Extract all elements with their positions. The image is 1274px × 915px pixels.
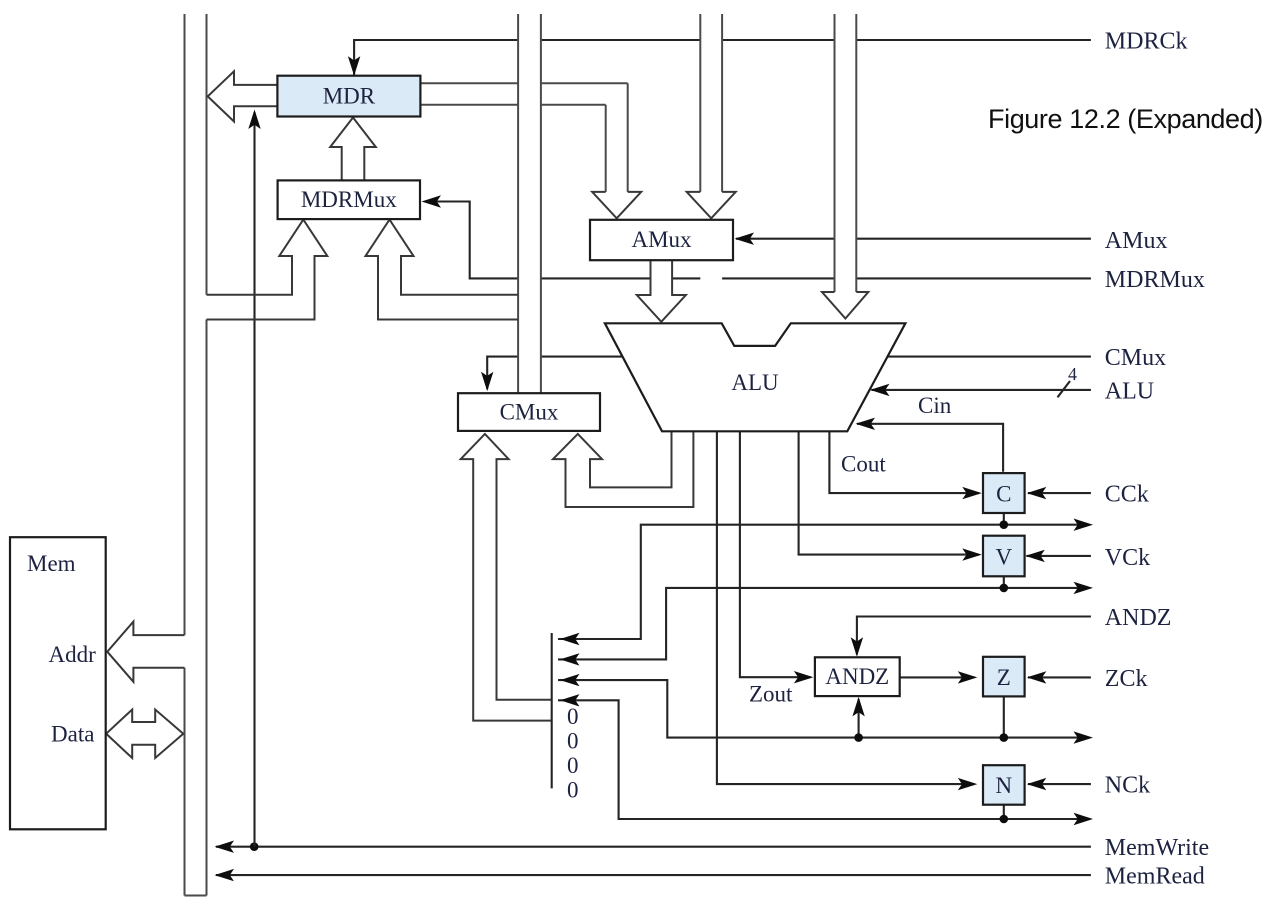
junction dot C output <box>1000 520 1009 529</box>
svg-text:NCk: NCk <box>1105 773 1150 799</box>
arrowhead Z feedback into zero bar <box>560 674 580 686</box>
wide arrow ALU output to CMux right input <box>553 431 693 507</box>
wire ANDZ bottom input from Z feedback <box>858 699 860 738</box>
svg-text:Cout: Cout <box>841 452 886 477</box>
wire Cin from C flag to ALU <box>857 424 1003 472</box>
svg-text:ANDZ: ANDZ <box>1105 605 1172 631</box>
wide double arrow Mem Data to system bus <box>106 710 183 759</box>
bus MDR output to AMux left input <box>420 83 627 192</box>
bus B-bus down to CMux (vertical pair) <box>518 14 541 393</box>
svg-text:MemRead: MemRead <box>1105 864 1205 890</box>
svg-text:V: V <box>995 544 1012 569</box>
junction dot ANDZ bottom <box>854 733 863 742</box>
bus right bus down to ALU right input (vertical pair) <box>835 14 857 292</box>
arrowhead VCk into V <box>1025 550 1045 562</box>
svg-text:ALU: ALU <box>731 370 779 395</box>
arrowhead C feedback into zero bar <box>560 633 580 645</box>
arrowhead ZCk into Z <box>1027 671 1047 683</box>
svg-text:Figure 12.2 (Expanded): Figure 12.2 (Expanded) <box>988 104 1263 134</box>
svg-text:MemWrite: MemWrite <box>1105 835 1209 861</box>
wide arrow zero-bar bus to CMux left input <box>461 434 552 721</box>
gate ANDZ <box>815 657 900 696</box>
wide arrow MDRMux to MDR <box>330 118 376 181</box>
wire C flag output feedback <box>558 513 1088 639</box>
wire ALU control line with 4-bit slash <box>872 381 1091 397</box>
wide arrow AMux output into ALU <box>637 260 686 322</box>
wire Cout from ALU to C flag <box>829 431 979 493</box>
svg-text:MDRMux: MDRMux <box>1105 267 1205 293</box>
arrowhead MemWrite into bus <box>215 841 235 853</box>
svg-text:N: N <box>995 773 1012 798</box>
svg-text:Cin: Cin <box>918 393 952 418</box>
svg-text:0: 0 <box>567 778 579 803</box>
svg-text:Zout: Zout <box>749 682 793 707</box>
arrowhead V feedback to right <box>1074 582 1094 594</box>
flag V <box>983 536 1025 577</box>
arrowhead MemRead into bus <box>215 869 235 881</box>
wire Zout from ALU to ANDZ <box>740 431 811 677</box>
wire MDRCk control line <box>354 40 1091 77</box>
flag N <box>983 765 1025 805</box>
arrowhead N feedback into zero bar <box>560 694 580 706</box>
arrowhead Cin into ALU <box>856 418 876 430</box>
junction dot Z output <box>1000 733 1009 742</box>
bus left system bus (vertical pair) <box>185 14 207 896</box>
svg-text:0: 0 <box>567 729 579 754</box>
svg-text:AMux: AMux <box>631 227 692 252</box>
junction dot V output <box>1000 584 1009 593</box>
svg-text:AMux: AMux <box>1105 228 1168 254</box>
svg-text:MDR: MDR <box>323 83 376 108</box>
wire N input from ALU <box>717 431 975 784</box>
bus A-bus down to AMux right input (vertical pair) <box>700 14 722 192</box>
wide arrow B-bus to MDRMux right input <box>366 220 519 320</box>
arrowhead V feedback into zero bar <box>560 653 580 665</box>
wire MemWrite branch up to memory bus arrow <box>253 112 255 847</box>
wire AMux control line <box>736 238 1091 240</box>
svg-text:Data: Data <box>51 722 94 747</box>
wire V flag output feedback <box>558 576 1088 659</box>
arrowhead into ANDZ bottom <box>852 697 864 717</box>
wire V input from ALU <box>799 431 979 554</box>
arrowhead memory branch pointing up <box>248 110 260 130</box>
wide arrow system bus to MDRMux left input <box>207 220 328 320</box>
wide arrowhead right bus into ALU <box>822 292 868 319</box>
arrowhead CCk into C <box>1027 487 1047 499</box>
svg-text:VCk: VCk <box>1105 545 1150 571</box>
wire MDRMux control line <box>427 202 1091 279</box>
arrowhead Zout into ANDZ <box>794 671 814 683</box>
register MDR <box>277 76 420 117</box>
svg-text:ALU: ALU <box>1105 378 1154 404</box>
arrowhead V input into V <box>962 548 982 560</box>
arrowhead ANDZ control into ANDZ <box>851 637 863 657</box>
svg-text:0: 0 <box>567 753 579 778</box>
flag C <box>983 473 1025 513</box>
block Mem (main memory) <box>10 537 106 829</box>
svg-text:CMux: CMux <box>1105 345 1166 371</box>
ALU block <box>605 323 906 431</box>
svg-text:Mem: Mem <box>27 551 76 576</box>
arrowhead CMux control into CMux <box>481 372 493 392</box>
arrowhead MDRMux control into MDRMux <box>422 195 442 207</box>
junction dot N output <box>1000 815 1009 824</box>
svg-text:CMux: CMux <box>500 399 559 424</box>
mux CMux <box>458 393 600 431</box>
svg-text:ANDZ: ANDZ <box>825 664 889 689</box>
mux AMux <box>590 220 733 260</box>
svg-text:MDRCk: MDRCk <box>1105 28 1188 54</box>
arrowhead C feedback to right <box>1074 519 1094 531</box>
junction dot MemWrite <box>250 842 259 851</box>
wide arrow MDR to system bus <box>208 71 278 121</box>
arrowhead Cout into C <box>962 487 982 499</box>
wire NCk clock line <box>1028 783 1091 785</box>
wire Z flag output feedback <box>558 680 1088 738</box>
svg-text:C: C <box>996 482 1011 507</box>
wide arrowhead A-bus into AMux <box>687 192 736 218</box>
svg-text:0: 0 <box>567 704 579 729</box>
mux MDRMux <box>278 180 420 219</box>
arrowhead MDRCk into MDR <box>348 56 360 75</box>
wire ZCk clock line <box>1028 676 1091 678</box>
svg-text:Z: Z <box>997 665 1011 690</box>
svg-text:CCk: CCk <box>1105 482 1149 508</box>
flag Z <box>983 657 1025 697</box>
arrowhead N input into N <box>958 778 978 790</box>
wide arrowhead MDR bus into AMux <box>592 192 641 218</box>
arrowhead ANDZ output into Z <box>958 671 978 683</box>
arrowhead N feedback to right <box>1074 813 1094 825</box>
wire ANDZ to Z <box>900 676 975 678</box>
svg-text:Addr: Addr <box>49 642 97 667</box>
wide arrow system bus to Mem Addr <box>107 622 184 682</box>
arrowhead NCk into N <box>1027 778 1047 790</box>
wire N flag output feedback <box>558 700 1088 819</box>
arrowhead Z feedback to right <box>1074 731 1094 743</box>
arrowhead AMux control into AMux <box>735 233 755 245</box>
wire MemRead line <box>216 874 1091 876</box>
zero bar (CMux constant input bar) <box>551 633 553 788</box>
wire CMux control line <box>487 357 1091 389</box>
wire VCk clock line <box>1027 555 1091 557</box>
arrowhead ALU control into ALU <box>870 384 890 396</box>
svg-text:ZCk: ZCk <box>1105 666 1148 692</box>
svg-text:MDRMux: MDRMux <box>301 187 397 212</box>
wire ANDZ control line <box>857 617 1091 655</box>
wire CCk clock line <box>1028 492 1091 494</box>
svg-text:4: 4 <box>1068 364 1077 384</box>
wire MemWrite line <box>216 846 1091 848</box>
